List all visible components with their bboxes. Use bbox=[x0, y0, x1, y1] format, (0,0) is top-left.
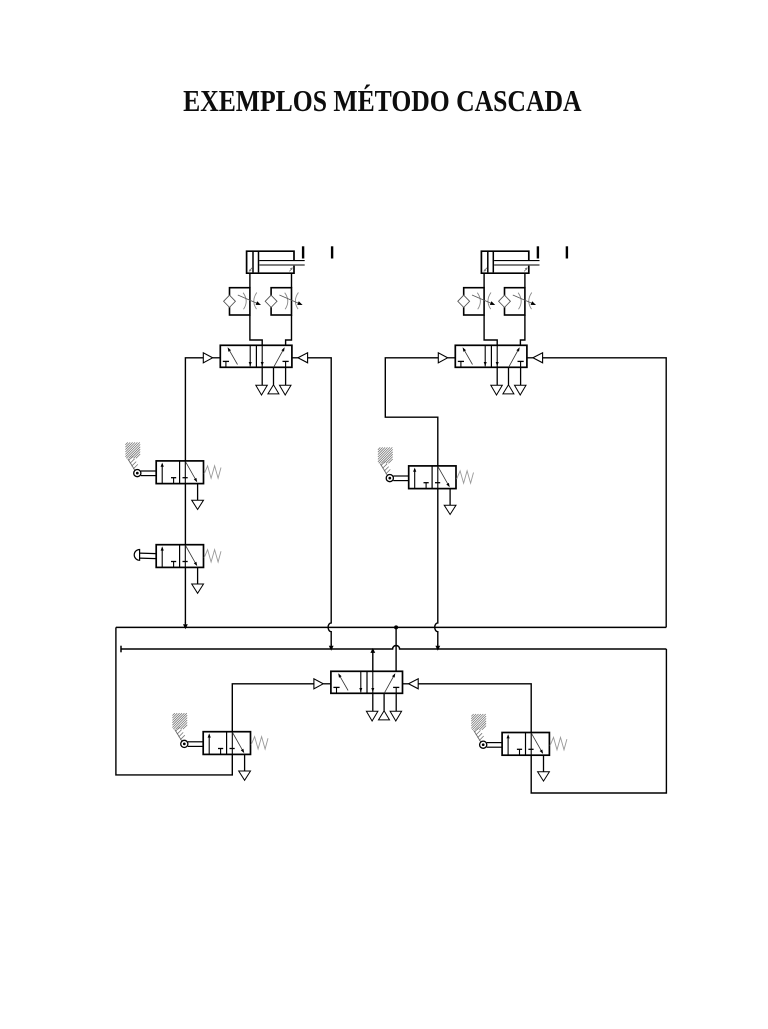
wire valve V3 port 4 to bus 2 (up arrow) bbox=[372, 652, 374, 671]
3/2 roller valve M bbox=[409, 466, 474, 515]
wire V3 right pilot to valve Q bbox=[418, 684, 531, 733]
wire V2 left pilot to valve M bbox=[385, 358, 438, 466]
5/2 valve V3 (cascade selector) bbox=[314, 671, 418, 721]
3/2 plunger valve B bbox=[156, 545, 221, 594]
cylinder 1A (double-acting) bbox=[247, 246, 333, 273]
wire valve V3 port 2 to bus 1 bbox=[395, 627, 397, 671]
wire V3 left pilot to valve P bbox=[232, 684, 314, 732]
3/2 roller valve A bbox=[156, 461, 221, 510]
svg-text:EXEMPLOS MÉTODO CASCADA: EXEMPLOS MÉTODO CASCADA bbox=[183, 83, 581, 118]
flow control valve 2L bbox=[458, 288, 495, 315]
wire FCV1R to valve V1 port 2 (jog) bbox=[286, 315, 292, 345]
roller lever of valve P bbox=[172, 713, 203, 747]
junction dot bus1 / valve3 port 2 bbox=[394, 625, 398, 629]
wire FCV2L to valve V2 port 4 (jog) bbox=[484, 315, 497, 345]
roller lever of valve Q bbox=[471, 714, 502, 748]
plunger of valve B bbox=[134, 550, 156, 561]
3/2 roller valve P bbox=[203, 732, 268, 781]
wire valve B to bus 1 bbox=[184, 567, 186, 622]
wire FCV1L to valve V1 port 4 (jog) bbox=[250, 315, 262, 345]
wire V1 left pilot line bbox=[185, 358, 203, 461]
5/2 valve V2 bbox=[438, 345, 542, 395]
flow control valve 1R bbox=[265, 288, 302, 315]
wire valve M supply to bus 2 (hops bus 1) bbox=[435, 489, 438, 645]
roller lever of valve A bbox=[125, 442, 156, 476]
flow control valve 1L bbox=[224, 288, 261, 315]
wire V2 right pilot to bus 1 right end bbox=[543, 358, 667, 628]
bus 2 (line 2) with hop over port-2 line bbox=[121, 646, 666, 650]
junction arrow valve M line into bus 2 bbox=[435, 646, 440, 651]
cylinder 1B (double-acting) bbox=[481, 246, 567, 273]
5/2 valve V1 bbox=[203, 345, 307, 395]
flow control valve 2R bbox=[499, 288, 536, 315]
3/2 roller valve Q bbox=[502, 733, 567, 782]
junction arrow V1 pilot line into bus 2 bbox=[329, 646, 334, 651]
wire bus 2 right wrap to valve Q supply bbox=[531, 649, 666, 793]
wire bus 1 left wrap to valve P supply bbox=[116, 627, 232, 775]
roller lever of valve M bbox=[378, 447, 409, 481]
cylinder 1B right port wire bbox=[524, 273, 526, 288]
wire valve A to valve B bbox=[184, 484, 186, 545]
cylinder 1A right port wire bbox=[291, 273, 293, 288]
bus 2 left end tick bbox=[120, 646, 122, 653]
cylinder 1B left port wire bbox=[483, 273, 485, 288]
wire V1 right pilot line (to bus 2, hops bus 1) bbox=[308, 358, 332, 645]
wire FCV2R to valve V2 port 2 (jog) bbox=[520, 315, 525, 345]
junction arrow valve B line into bus 1 bbox=[183, 624, 188, 629]
bus 1 (line 1) bbox=[116, 626, 666, 628]
cylinder 1A left port wire bbox=[249, 273, 251, 288]
